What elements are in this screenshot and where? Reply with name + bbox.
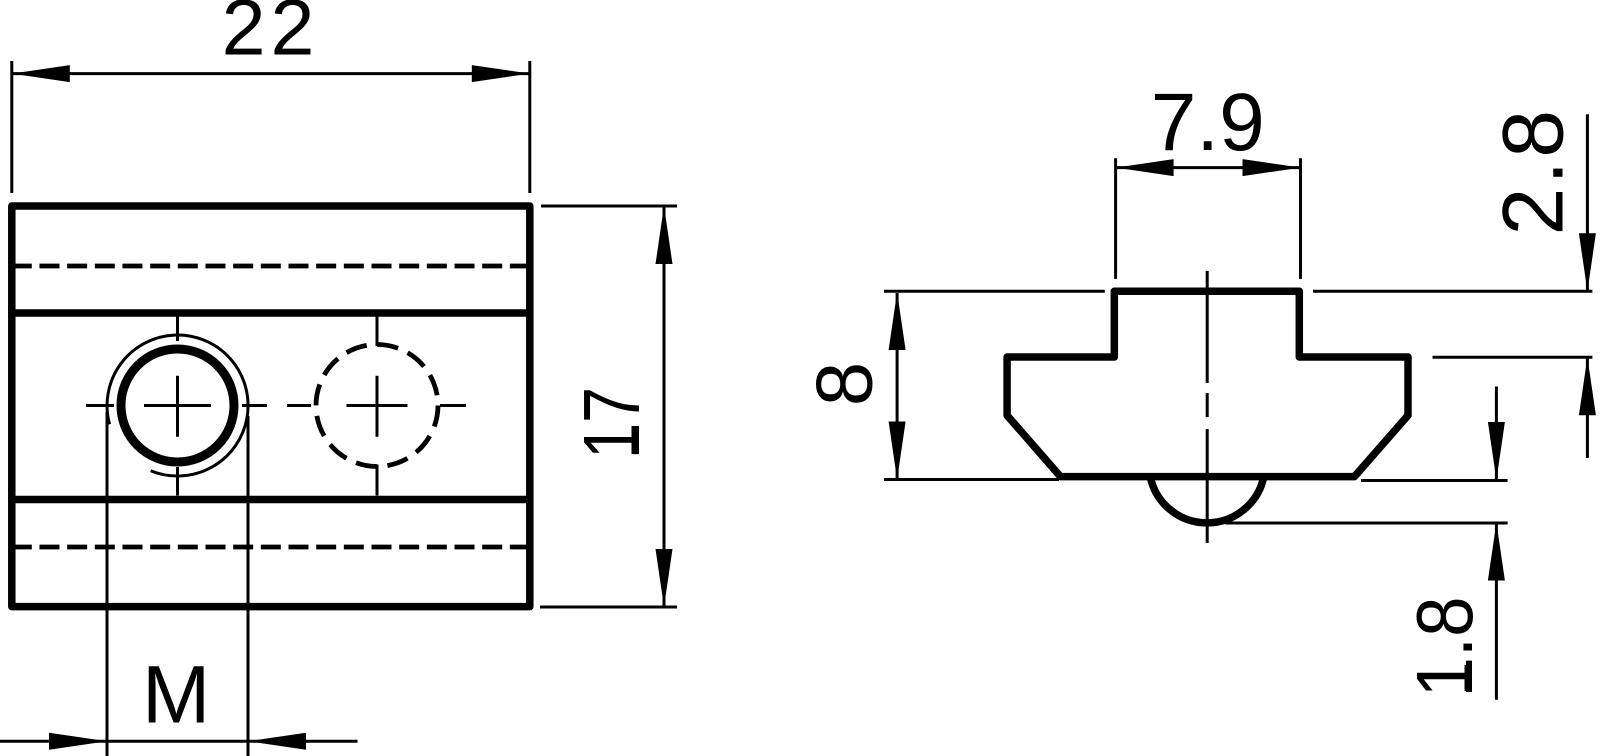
- svg-text:17: 17: [567, 387, 656, 459]
- side view: T-profile outline: [1007, 291, 1408, 476]
- dimension 22: arrowhead left: [12, 65, 70, 82]
- dimension 1.8: arrowhead upper (pointing down): [1488, 422, 1505, 480]
- svg-text:8: 8: [799, 362, 888, 407]
- dimension 17: arrowhead top: [656, 206, 673, 264]
- centerline left hole vertical: [176, 316, 179, 496]
- dimension M: extension lines: [107, 412, 248, 756]
- dimension 2.8: extension line top: [1313, 290, 1592, 293]
- svg-text:2.8: 2.8: [1486, 107, 1582, 236]
- svg-text:1.8: 1.8: [1400, 597, 1489, 698]
- tapped hole M: thread major diameter arc: [107, 335, 248, 476]
- dimension M: dimension line: [0, 740, 358, 743]
- front view: tongue edge bottom: [9, 496, 533, 504]
- dimension 22: dimension line: [12, 72, 530, 75]
- side view: vertical centerline (dash-dot): [1206, 271, 1209, 543]
- dimension M: arrowhead right (pointing left): [248, 733, 306, 750]
- front view: hidden chamfer edge top (dashed): [12, 264, 530, 269]
- dimension 8: extension line top: [884, 290, 1105, 293]
- dimension 7.9: extension lines: [1116, 158, 1301, 279]
- dimension 17: dimension line: [663, 206, 666, 607]
- dimension 8: dimension line: [896, 293, 899, 479]
- front view: tongue edge top: [9, 309, 533, 317]
- dimension 2.8: dimension line tails: [1586, 114, 1589, 458]
- dimension 2.8: arrowhead lower (pointing up): [1579, 357, 1596, 415]
- dimension 22: extension lines: [12, 61, 530, 193]
- dimension 1.8: foot serif of digit 1: [1465, 665, 1473, 691]
- second hole (hidden, dashed circle): [316, 345, 438, 467]
- front view: nut body outline 22x17: [12, 206, 530, 607]
- centerline right hole horizontal: [287, 404, 466, 407]
- dimension 7.9: dimension line: [1116, 166, 1301, 169]
- svg-text:M: M: [142, 650, 210, 741]
- dimension 17: arrowhead bottom: [656, 549, 673, 607]
- dimension 8: arrowhead top: [889, 292, 906, 350]
- front view: hidden chamfer edge bottom (dashed): [12, 545, 530, 550]
- tapped hole M: minor diameter circle: [121, 349, 234, 462]
- dimension M: arrowhead left (pointing right): [49, 733, 107, 750]
- dimension 22: arrowhead right: [472, 65, 530, 82]
- dimension 2.8: extension line bottom: [1433, 356, 1593, 359]
- dimension 7.9: arrowhead right: [1243, 159, 1301, 176]
- dimension 2.8: arrowhead upper (pointing down): [1579, 233, 1596, 291]
- centerline left hole horizontal: [86, 404, 267, 407]
- dimension 1.8: extension line bottom: [1225, 522, 1508, 525]
- svg-text:22: 22: [222, 0, 320, 72]
- svg-text:7.9: 7.9: [1151, 77, 1265, 168]
- dimension 8: arrowhead bottom: [889, 422, 906, 480]
- dimension 1.8: dimension line tails: [1495, 387, 1498, 700]
- centerline right hole vertical: [376, 316, 379, 496]
- dimension 1.8: extension line top: [1361, 479, 1508, 482]
- dimension 17: foot serif of digit 1: [632, 426, 640, 454]
- dimension 17: extension lines: [540, 206, 677, 607]
- side view: spring ball arc: [1150, 477, 1264, 523]
- dimension 7.9: arrowhead left: [1116, 159, 1174, 176]
- dimension 1.8: arrowhead lower (pointing up): [1488, 523, 1505, 581]
- dimension 8: extension line bottom: [884, 478, 1059, 481]
